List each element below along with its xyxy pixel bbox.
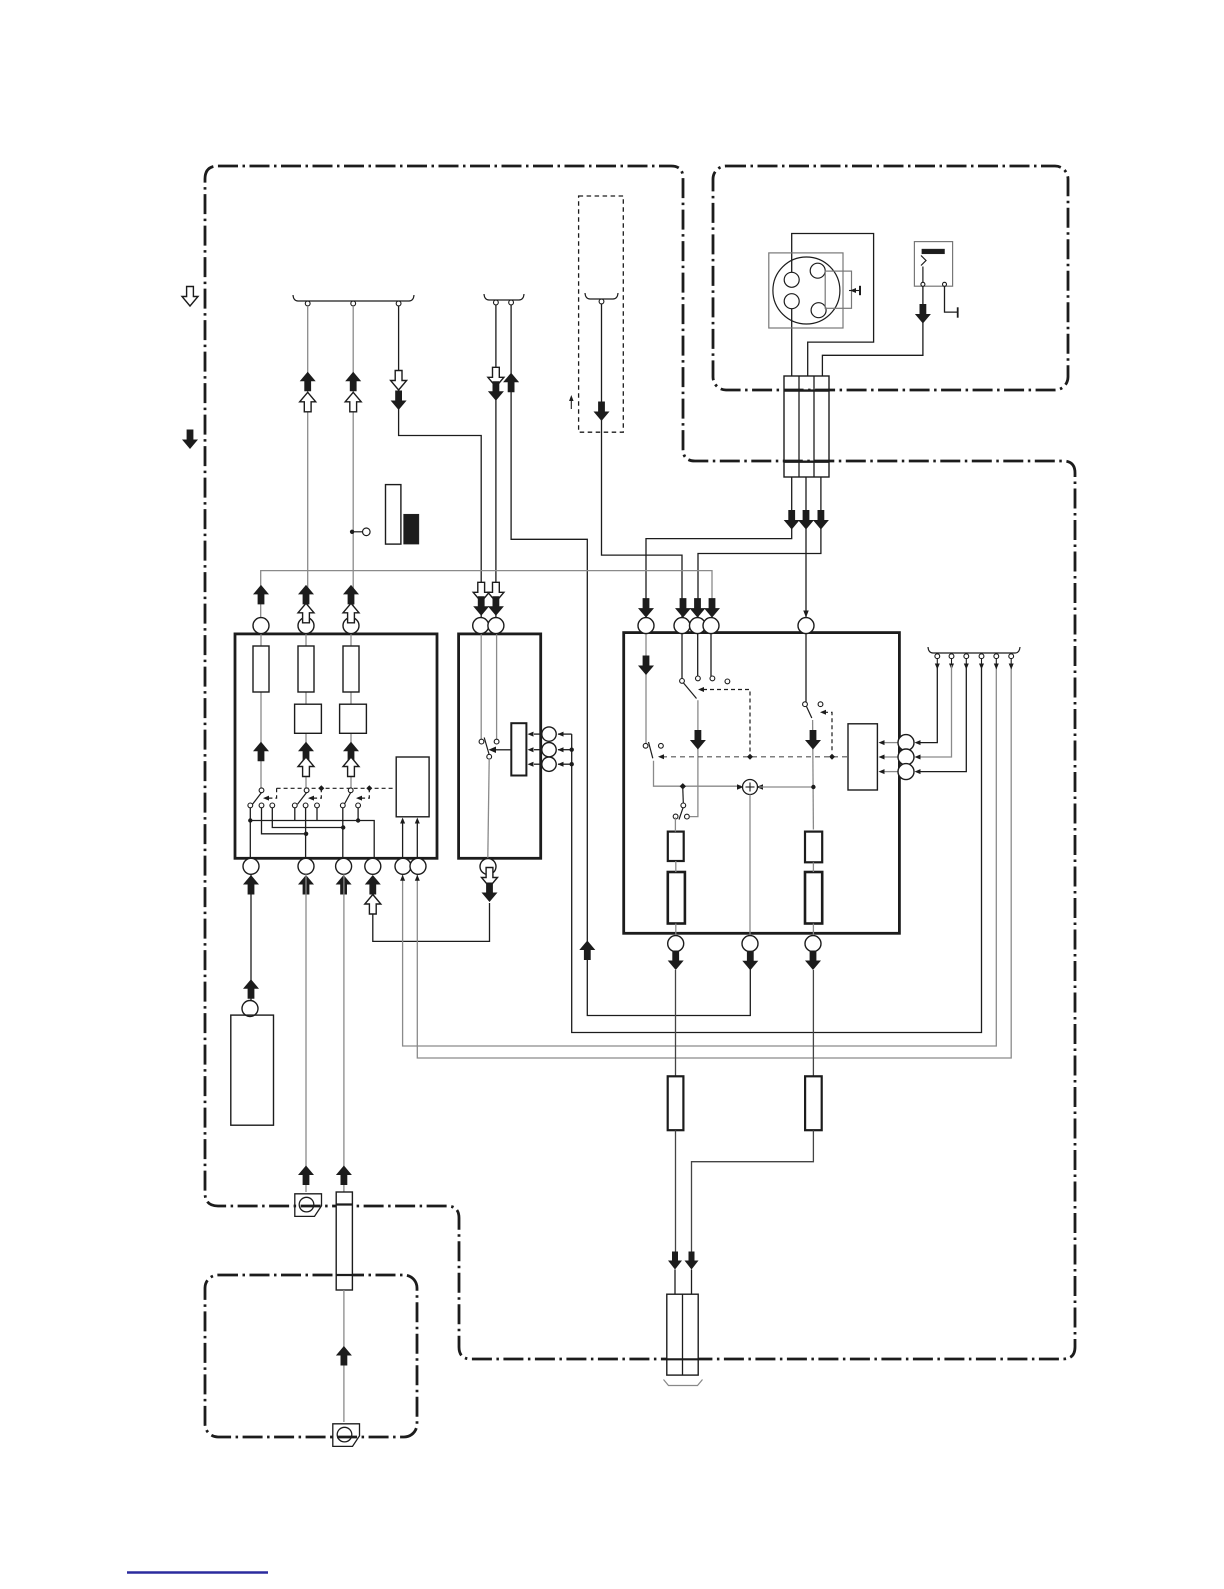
node: U3 pads top bbox=[638, 618, 654, 634]
arrow: left margin out bbox=[182, 287, 198, 307]
arrow U1 top1 bbox=[253, 585, 269, 605]
wire: R21 down bbox=[675, 1130, 677, 1252]
wire: U3 in3 bbox=[710, 634, 712, 676]
arrow A3 in bbox=[391, 371, 407, 391]
node: U2 pad bottom bbox=[480, 859, 496, 875]
wire: bundle line1 bbox=[918, 665, 937, 743]
IC block U2 (head amp) bbox=[459, 634, 541, 858]
arrow: loop return up bbox=[579, 941, 595, 961]
arrow U3 bot1 bbox=[668, 951, 684, 971]
arrow: to CN2 b bbox=[685, 1252, 699, 1270]
amp A3 bbox=[340, 704, 367, 733]
wire: R22 down bbox=[692, 1130, 814, 1252]
resistor R14 bbox=[805, 872, 822, 924]
wire: motor pin wire bbox=[791, 301, 793, 376]
arrow U3 right bbox=[805, 730, 821, 750]
wire: cable line C bbox=[602, 304, 683, 618]
wire: U3 bot3 down bbox=[812, 970, 814, 1076]
wire: bundle line3 bbox=[918, 665, 966, 772]
arrow: CN5 out bbox=[336, 1346, 352, 1366]
arrow: left margin in bbox=[182, 430, 198, 450]
wire: U3 in2b bbox=[697, 634, 699, 676]
wire: U3 in4 bbox=[805, 634, 807, 702]
battery BT1 bbox=[231, 1015, 274, 1125]
summer X1 bbox=[743, 780, 758, 795]
resistor R11 bbox=[668, 832, 684, 861]
switch SW3b bbox=[680, 679, 685, 684]
wire: line1 link to servo block bbox=[261, 571, 712, 618]
wire: U1 mesh 1 bbox=[249, 808, 251, 858]
resistor R1 bbox=[253, 646, 269, 692]
wire: switch S1 to connector bbox=[822, 286, 923, 376]
arrow: small direction mark near option box bbox=[570, 399, 572, 409]
connector CN3 bbox=[295, 1194, 322, 1217]
wire: cable line A2 bbox=[352, 306, 354, 618]
IC block U3 (servo/system control) bbox=[624, 633, 900, 934]
wire: sensor line B bbox=[417, 668, 1011, 1058]
resistor R2 bbox=[298, 646, 314, 692]
wire: CN1 pin3 down bbox=[698, 477, 821, 618]
node: level meter symbol bbox=[386, 485, 401, 544]
switch SW2 bbox=[479, 739, 484, 744]
wire: SW3b dashed ctl bbox=[703, 690, 750, 754]
node: cable bracket A bbox=[293, 295, 414, 301]
arrow U1 top2 bbox=[298, 585, 314, 605]
wire: cable line A3 bbox=[399, 306, 482, 618]
arrow: S1 signal bbox=[915, 304, 931, 324]
wire: U1 ch3 bbox=[350, 634, 352, 788]
arrow: CN3 out bbox=[298, 1166, 314, 1186]
arrow B2 out bbox=[503, 373, 519, 393]
node: U1 pads top bbox=[253, 618, 269, 634]
wire: switch S1 nc stub bbox=[945, 286, 958, 312]
arrow U1 top3 bbox=[343, 585, 359, 605]
node: motor terminal loop bbox=[825, 271, 851, 308]
arrow U1 bot4 bbox=[365, 875, 381, 895]
wire: R13 chain bbox=[812, 862, 814, 872]
arrow U2 top2 bbox=[488, 582, 504, 602]
wire: U1 bot3 to CN4 bbox=[343, 874, 345, 1192]
wire: U2 out bbox=[488, 759, 489, 858]
node: chassis tie bbox=[849, 290, 860, 292]
switch S1 (cassette) bbox=[914, 242, 952, 287]
switch SW1b bbox=[304, 788, 309, 793]
wire: bottom-left unit dash-dot outline bbox=[205, 1275, 417, 1437]
wire: top-right unit dash-dot outline bbox=[713, 166, 1068, 390]
wire: main dash-dot board outline bbox=[205, 166, 1075, 1359]
arrow U3 top4 bbox=[704, 598, 720, 618]
wire: cable line B1 bbox=[495, 305, 497, 618]
arrow C in bbox=[594, 402, 610, 422]
connector CN4 bbox=[336, 1192, 352, 1290]
node: cable bracket B bbox=[484, 294, 524, 300]
wire: SW3b out bbox=[690, 700, 698, 816]
resistor R3 bbox=[343, 646, 359, 692]
wire: U3 bot1 down bbox=[675, 970, 677, 1076]
wire: U1 ch2 bbox=[305, 634, 307, 788]
wire: U3 in1 bbox=[645, 634, 647, 744]
capstan motor M1 frame bbox=[769, 253, 843, 328]
arrow U2 out bbox=[482, 868, 498, 888]
node: bundle bracket bbox=[928, 647, 1020, 653]
arrow U3 mid bbox=[690, 730, 706, 750]
wire: SW3c out bbox=[812, 720, 815, 830]
arrow A2 out bbox=[345, 372, 361, 392]
node: U3 pads bottom bbox=[668, 936, 684, 952]
wire: CN1 pin2 down bbox=[805, 477, 807, 618]
arrow A1 out bbox=[300, 372, 316, 392]
arrow U1 bot1 bbox=[243, 875, 259, 895]
connector CN1 bbox=[784, 376, 829, 477]
wire: U1 bot2 to CN3 bbox=[305, 874, 307, 1192]
resistor R12 bbox=[668, 872, 685, 924]
arrow: to CN2 a bbox=[668, 1252, 682, 1270]
arrow U1 bot5 bbox=[400, 875, 405, 881]
node: U3 pads right bbox=[898, 735, 914, 751]
wire: U1 mesh 3 bbox=[262, 808, 307, 834]
wire: cable line B2 bbox=[511, 305, 750, 1016]
wire: main dashed mode line bbox=[662, 756, 848, 758]
wire: U1b feeds bbox=[402, 822, 404, 858]
wire: U1 mesh 2 bbox=[272, 808, 343, 828]
arrow U2 top1 bbox=[473, 582, 489, 602]
wire: U1 control bus (dashed) bbox=[277, 787, 397, 789]
switch SW3a bbox=[643, 743, 648, 748]
wire: U3b in1 bbox=[884, 742, 898, 744]
driver block U2b bbox=[511, 723, 526, 775]
switch SW3d bbox=[680, 783, 686, 789]
connector CN2 bbox=[667, 1294, 698, 1375]
connector CN5 bbox=[333, 1424, 360, 1447]
wire: U2b ctl bbox=[496, 749, 512, 751]
arrow U3 top1 bbox=[638, 598, 654, 618]
arrow U1 ch1 bbox=[253, 742, 269, 762]
arrow U3 top2 bbox=[675, 598, 691, 618]
wire: CN1 pin1 down bbox=[646, 477, 792, 618]
wire: summer right bbox=[759, 786, 813, 788]
arrow U3 top3 bbox=[690, 598, 706, 618]
arrow B1 in bbox=[488, 367, 504, 387]
resistor R22 bbox=[805, 1076, 822, 1130]
wire: sensor line A bbox=[403, 668, 997, 1046]
node: battery pad bbox=[242, 1001, 258, 1017]
node: CN2 bracket bbox=[664, 1380, 703, 1386]
arrow U3 bot3 bbox=[805, 951, 821, 971]
driver block U3b bbox=[848, 724, 877, 790]
arrow: CN1 pin1 bbox=[784, 510, 800, 530]
amp A2 bbox=[295, 704, 322, 733]
resistor R21 bbox=[668, 1076, 684, 1130]
arrow: CN1 pin3 bbox=[813, 510, 829, 530]
arrow U3 in1 bbox=[638, 656, 654, 676]
node: U2 pads top bbox=[473, 618, 489, 634]
node: cable bracket C bbox=[585, 293, 618, 299]
wire: U1 bot1 to battery bbox=[250, 874, 252, 1000]
wire: SW3a out to summer bbox=[654, 761, 742, 787]
wire: U2 in1 bbox=[480, 634, 482, 739]
capstan motor M1 bbox=[773, 257, 840, 324]
wire: cable line A1 bbox=[307, 306, 309, 618]
arrow: CN4 out bbox=[336, 1166, 352, 1186]
wire: bundle pins bbox=[935, 654, 940, 659]
wire: U3 in2 bbox=[681, 634, 683, 679]
node: U2 pads right bbox=[558, 733, 572, 735]
wire: SW3c dashed ctl bbox=[824, 712, 832, 753]
arrow: CN1 pin2 bbox=[798, 510, 814, 530]
IC block U1 (audio/video amp) bbox=[235, 634, 437, 858]
arrow U1 bot3 bbox=[336, 875, 352, 895]
regulator block U1b bbox=[396, 757, 429, 817]
node: test point TP1 bbox=[350, 530, 354, 534]
arrow U3 top5 bbox=[803, 611, 809, 618]
resistor R13 bbox=[805, 832, 822, 863]
arrow U3 bot2 bbox=[742, 951, 758, 971]
wire: motor loop wire bbox=[792, 234, 874, 377]
arrow U1 bot6 bbox=[415, 875, 420, 881]
wire: FE loop left bbox=[373, 903, 490, 941]
wire: bottom link (blue) bbox=[127, 1571, 268, 1573]
wire: R11 chain bbox=[674, 817, 676, 831]
switch SW1a bbox=[259, 788, 264, 793]
switch SW3c bbox=[803, 702, 808, 707]
wire: U3b in2 bbox=[884, 756, 898, 758]
wire: CN4 to CN5 bbox=[343, 1290, 345, 1422]
node: dotted option box bbox=[579, 196, 624, 432]
arrow: battery in bbox=[243, 979, 259, 999]
switch SW1c bbox=[348, 788, 353, 793]
wire: U1 ch1 bbox=[260, 634, 262, 788]
wire: U3b in3 bbox=[884, 771, 898, 773]
wire: U2 in2 bbox=[496, 634, 498, 739]
arrow U1 ch3 bbox=[343, 742, 359, 762]
arrow U1 bot2 bbox=[298, 875, 314, 895]
wire: audio line via C block bbox=[572, 668, 982, 1033]
wire: summer down bbox=[749, 795, 751, 936]
wire: bundle line2 bbox=[918, 665, 952, 757]
arrow U1 ch2 bbox=[298, 742, 314, 762]
node: U1 pads bottom bbox=[243, 858, 259, 874]
